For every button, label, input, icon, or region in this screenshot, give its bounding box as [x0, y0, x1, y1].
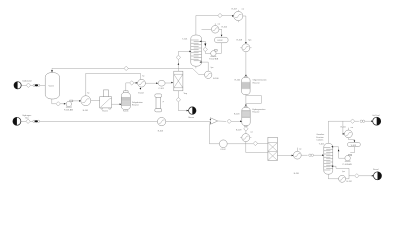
wire hydrogen feed line	[21, 120, 157, 122]
condenser E-107	[232, 8, 245, 22]
wire C-102 to separator	[227, 143, 253, 145]
svg-text:Diesel: Diesel	[373, 169, 379, 171]
svg-text:Steam: Steam	[188, 116, 194, 119]
wire T-102 bottoms to reboiler E-112	[328, 174, 338, 179]
wire E-108 to reactor R-102	[245, 52, 247, 77]
wire to diesel stream	[359, 175, 374, 177]
svg-text:E-106: E-106	[213, 78, 219, 80]
svg-text:E-102: E-102	[138, 92, 144, 94]
wire E-114 to column T-102	[301, 154, 307, 156]
valve diamond	[253, 141, 257, 145]
svg-text:E-108: E-108	[237, 39, 243, 41]
reflux drum V-103	[348, 142, 361, 147]
svg-text:P-102 A/B: P-102 A/B	[209, 58, 219, 61]
valve diamond	[355, 174, 359, 178]
inline flow element	[33, 84, 40, 86]
svg-text:R-102: R-102	[235, 79, 241, 81]
svg-text:E-103: E-103	[158, 131, 164, 133]
condenser E-105 loop	[202, 23, 228, 36]
svg-text:lps: lps	[342, 171, 345, 173]
wire E-111 to drum V-103	[348, 138, 354, 143]
svg-text:Reactor: Reactor	[253, 81, 260, 84]
wire drum to pump P-103	[350, 147, 354, 153]
product stream Jet Fuel	[372, 114, 380, 125]
product stream Steam	[188, 107, 196, 119]
svg-text:Reactor: Reactor	[132, 104, 139, 107]
wire into T-102	[314, 154, 325, 156]
svg-text:Dehydration: Dehydration	[132, 101, 143, 104]
wire to tag	[355, 120, 359, 122]
wire E-102 to C-101	[145, 82, 158, 84]
svg-text:V-102: V-102	[217, 40, 223, 42]
wire pump to E-101	[73, 100, 81, 102]
svg-text:lps: lps	[211, 67, 214, 69]
valve diamond	[350, 119, 354, 123]
column T-102	[316, 134, 332, 174]
svg-text:E-112: E-112	[347, 181, 353, 183]
wire drum to pump P-102	[216, 43, 221, 54]
feed stream Isobutanol	[14, 80, 32, 89]
wire furnace to reactor R-101	[112, 103, 121, 105]
condenser E-111	[341, 126, 354, 138]
svg-text:V-101: V-101	[49, 85, 55, 87]
svg-text:E-105: E-105	[222, 26, 228, 28]
wire E-110 to separator lower inlet	[246, 142, 268, 153]
wire overhead branch down to E-111	[343, 121, 345, 135]
reboiler E-112	[339, 171, 353, 183]
column T-101	[182, 35, 201, 66]
wire C-101 to vaporizer	[165, 82, 173, 84]
wire vaporizer overhead to column T-101 feed	[178, 51, 192, 72]
reflux drum V-102	[215, 37, 229, 43]
feed stream Hydrogen	[13, 115, 31, 125]
inline flow element	[33, 120, 40, 122]
wire into separator	[258, 142, 268, 144]
reboiler loop E-106	[200, 61, 220, 80]
svg-text:H-101: H-101	[102, 110, 108, 112]
compressor C-101	[158, 80, 165, 90]
valve diamond	[130, 81, 134, 85]
pump P-101	[64, 100, 74, 112]
pump P-102	[209, 50, 219, 61]
mixer triangle	[210, 118, 218, 125]
svg-text:C-102: C-102	[220, 149, 226, 151]
spare filter cylinder	[155, 94, 165, 112]
valve diamond	[56, 102, 60, 106]
valve diamond	[244, 127, 248, 131]
wire isobutanol feed line	[21, 84, 45, 86]
cooler E-114	[293, 148, 302, 176]
valve diamond	[176, 55, 180, 59]
wire R-103 bottoms to E-110	[245, 127, 247, 134]
valve diamond	[26, 83, 30, 87]
inline tag marker	[309, 154, 314, 156]
svg-text:E-109: E-109	[236, 130, 242, 132]
svg-text:Oligomerization: Oligomerization	[253, 79, 267, 82]
compressor C-102	[219, 140, 227, 151]
vaporizer vessel with X internals	[174, 71, 188, 95]
svg-text:hps: hps	[248, 39, 251, 41]
wire into R-103	[231, 121, 242, 123]
wire E-101 to furnace	[91, 100, 100, 102]
cooler E-110	[236, 130, 253, 142]
wire T-102 overhead to jet fuel	[328, 121, 350, 143]
heat exchanger E-101	[81, 92, 91, 112]
wire R-101 overhead	[126, 83, 130, 91]
wire E-107 down to E-108	[243, 16, 247, 44]
cooler E-108	[237, 39, 252, 51]
svg-text:Isobutanol: Isobutanol	[22, 80, 32, 83]
svg-text:Jet Fuel: Jet Fuel	[372, 114, 380, 117]
wire diesel product	[349, 175, 354, 177]
svg-text:R-101: R-101	[123, 110, 129, 112]
wire E-101 cross stream up/over/down through E-102	[86, 73, 145, 95]
vessel V-101	[45, 73, 59, 99]
heat exchanger E-102	[138, 79, 146, 94]
wire separator to E-114	[277, 155, 293, 157]
heater E-103	[157, 117, 165, 132]
wire R-102 to R-103 with side loop	[245, 95, 261, 107]
wire V-101 bottoms to pump	[52, 99, 56, 104]
pump P-103	[343, 154, 353, 166]
wire mixer to R-103	[218, 120, 226, 122]
wire pump to column reflux	[200, 41, 211, 54]
svg-text:Column: Column	[316, 139, 323, 141]
wire recycle from mixer down	[209, 124, 219, 144]
wire column T-101 overhead	[196, 16, 234, 36]
reactor R-101	[121, 91, 142, 113]
reactor R-102 oligomerization	[235, 76, 267, 94]
valve diamond	[26, 119, 30, 123]
valve diamond	[176, 98, 180, 102]
svg-text:Fraction: Fraction	[316, 136, 323, 139]
svg-text:E-107: E-107	[232, 8, 238, 10]
wire E-103 to mixer	[166, 120, 211, 122]
reactor R-103 hydrogenation	[234, 106, 266, 126]
svg-text:V-103: V-103	[351, 145, 357, 147]
svg-text:Hydrogenation: Hydrogenation	[252, 108, 265, 111]
svg-text:Reactor: Reactor	[252, 111, 259, 114]
svg-text:P-103 A/B: P-103 A/B	[343, 163, 353, 166]
wire pump to column reflux	[331, 146, 345, 158]
valve diamond	[218, 13, 222, 17]
wire vaporizer bottoms to steam stream	[178, 91, 188, 112]
svg-text:C-101: C-101	[158, 88, 164, 90]
svg-text:T-102: T-102	[319, 143, 325, 145]
wire reboiler return to column	[331, 165, 349, 178]
valve diamond	[227, 119, 231, 123]
svg-text:T-101: T-101	[182, 38, 188, 40]
inline tag marker	[360, 120, 365, 122]
svg-text:E-101: E-101	[83, 110, 89, 112]
valve diamond on overhead line	[124, 66, 128, 70]
wire to E-102	[134, 82, 138, 84]
valve diamond reflux	[203, 47, 207, 51]
separator vessel with X internals	[268, 137, 278, 160]
wire to pump	[60, 103, 66, 105]
svg-text:R-103: R-103	[234, 114, 240, 116]
wire V-101 overhead to column T-101	[51, 66, 205, 74]
svg-text:E-110: E-110	[294, 173, 300, 175]
wire to jet fuel stream	[365, 120, 373, 122]
svg-text:P-101 A/B: P-101 A/B	[64, 109, 74, 112]
svg-text:E-111: E-111	[341, 126, 347, 128]
product stream Diesel	[373, 169, 382, 180]
furnace H-101	[100, 90, 112, 112]
